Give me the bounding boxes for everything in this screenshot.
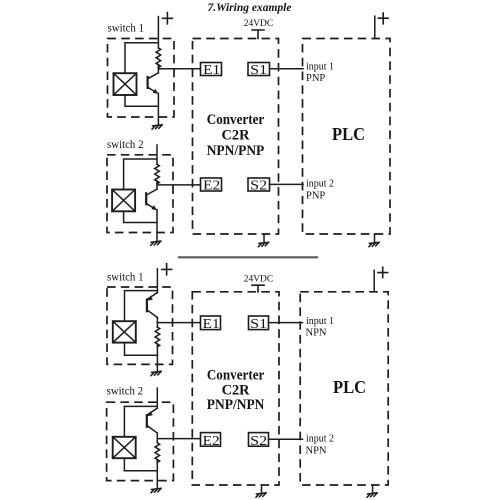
svg-text:E2: E2 [203,178,220,193]
supply + symbol (PLC top) [378,13,388,24]
ground (converter top) [258,242,268,247]
transistor Q1 PNP (switch 1 bottom) [147,293,158,318]
svg-text:PLC: PLC [332,124,365,144]
wire: sensor top to supply rail (switch 2 top) [124,159,157,190]
sensor element crossed box (switch 1 bottom) [113,321,136,342]
svg-text:S2: S2 [250,433,267,448]
svg-text:S1: S1 [250,316,267,331]
svg-text:switch 1: switch 1 [108,23,145,35]
wire: output node to E1 (bottom) [157,322,200,324]
svg-text:switch 2: switch 2 [107,385,144,397]
wire: S1 to PLC input 1 (bottom) [269,322,303,324]
wire: output node to E2 (bottom) [157,438,200,440]
switch 2 enclosure (top, dashed) [107,155,173,233]
wire: resistor to ground (switch 2 bottom) [156,459,158,488]
wire: supply drop to emitter (switch 2 bottom) [156,388,158,408]
svg-text:S1: S1 [250,62,267,77]
terminal S2 (bottom) [249,433,269,448]
wire: collector to output node (switch 2 bottom) [156,433,158,443]
converter text block (top) [207,112,265,159]
24VDC supply tap symbol (top) [252,30,264,39]
wire: output node to E1 (switch 1 top) [158,68,200,70]
supply + symbol (PLC bottom) [378,267,388,277]
svg-text:C2R: C2R [222,128,250,144]
wire: supply drop to emitter (switch 1 bottom) [156,269,158,293]
wire: PLC supply drop (top) [374,16,376,38]
sensor element crossed box (switch 1 top) [114,73,137,95]
terminal S1 (top) [248,62,270,77]
converter C2R enclosure (bottom, dashed) [192,292,279,485]
ground (PLC top) [369,242,379,247]
wire: emitter to ground (switch 1 top) [157,93,159,125]
wire: S2 to PLC input 2 (top) [270,183,304,185]
svg-text:Converter: Converter [207,367,265,383]
svg-text:NPN: NPN [306,328,327,339]
transistor Q2 PNP (switch 2 bottom) [147,408,158,433]
wire: S1 to PLC input 1 (top) [270,68,304,70]
wire: S2 to PLC input 2 (bottom) [269,438,303,440]
ground (switch 2 top) [151,241,161,246]
ground (switch 1 bottom) [151,371,161,376]
resistor (switch 2 top) [155,164,160,184]
wire: collector to output node (switch 1 bottom) [156,317,158,327]
wire: sensor bottom to emitter line (switch 2 top) [124,211,157,222]
24VDC supply tap symbol (bottom) [252,285,264,292]
ground (converter bottom) [256,493,266,498]
sensor element crossed box (switch 2 top) [112,190,135,212]
resistor (switch 2 bottom) [155,443,160,462]
svg-text:input 1: input 1 [306,61,334,72]
PLC enclosure (top, dashed) [303,39,391,235]
svg-text:PNP/NPN: PNP/NPN [207,397,265,413]
svg-text:E1: E1 [203,62,220,77]
wire: sensor bottom to emitter line (switch 1 top) [125,95,158,106]
wire: sensor top to supply rail (switch 1 bottom) [125,291,158,322]
wire: supply drop to resistor (switch 2 top) [156,145,158,164]
svg-text:switch 1: switch 1 [107,272,144,284]
svg-text:switch 2: switch 2 [107,139,144,151]
svg-text:24VDC: 24VDC [244,274,274,284]
switch 1 enclosure (bottom, dashed) [107,287,173,364]
ground stem (converter bottom) [261,485,263,493]
svg-text:S2: S2 [250,178,267,193]
svg-text:Converter: Converter [207,112,265,128]
PLC enclosure (bottom, dashed) [300,292,388,485]
svg-text:PNP: PNP [306,190,325,201]
svg-text:input 1: input 1 [306,316,334,327]
wire: sensor top to supply rail (switch 1 top) [125,43,158,73]
terminal E1 (top) [201,62,222,77]
wire: emitter to ground (switch 2 top) [156,210,158,242]
svg-text:input 2: input 2 [306,179,334,190]
ground stem (converter top) [263,234,265,242]
converter C2R enclosure (top, dashed) [193,39,279,235]
svg-text:NPN: NPN [306,445,327,456]
supply + symbol (switch 1 bottom) [162,264,172,275]
wire: PLC supply drop (bottom) [373,270,375,292]
wire: resistor to collector node (switch 2 top) [156,181,158,189]
svg-text:PLC: PLC [333,377,366,397]
converter text block (bottom) [207,367,265,413]
terminal S1 (bottom) [249,316,269,331]
section divider line [178,256,318,258]
terminal E2 (top) [201,178,222,193]
wire: sensor top to supply rail (switch 2 bottom) [124,406,157,436]
supply + symbol (switch 1 top) [163,13,173,24]
resistor (switch 1 bottom) [155,327,160,346]
wire: sensor bottom to ground line (switch 1 bottom) [125,343,158,356]
terminal E2 (bottom) [201,433,221,448]
svg-text:E1: E1 [203,316,220,331]
ground (PLC bottom) [367,493,377,498]
ground stem (PLC top) [374,234,376,242]
terminal E1 (bottom) [201,316,221,331]
wire: output node to E2 (switch 2 top) [157,184,201,186]
resistor (switch 1 top) [156,48,161,68]
ground (switch 2 bottom) [151,488,161,493]
switch 2 enclosure (bottom, dashed) [107,402,174,480]
terminal S2 (top) [248,178,270,193]
sensor element crossed box (switch 2 bottom) [113,437,136,458]
wire: resistor to collector node (switch 1 top) [157,65,159,73]
ground stem (PLC bottom) [372,485,374,493]
svg-text:24VDC: 24VDC [244,19,274,29]
transistor Q1 NPN (switch 1 top) [148,73,159,94]
svg-text:E2: E2 [203,433,220,448]
wire: resistor to ground (switch 1 bottom) [156,344,158,372]
wire: sensor bottom to ground line (switch 2 bottom) [124,458,157,471]
svg-text:C2R: C2R [222,382,250,398]
switch 1 enclosure (top, dashed) [108,39,175,118]
svg-text:7.Wiring example: 7.Wiring example [208,2,292,14]
svg-text:PNP: PNP [306,73,325,84]
wire: supply drop to resistor (switch 1 top) [157,17,159,48]
ground (switch 1 top) [152,125,162,130]
svg-text:input 2: input 2 [306,433,334,444]
svg-text:NPN/PNP: NPN/PNP [207,143,265,159]
transistor Q2 NPN (switch 2 top) [146,189,157,210]
